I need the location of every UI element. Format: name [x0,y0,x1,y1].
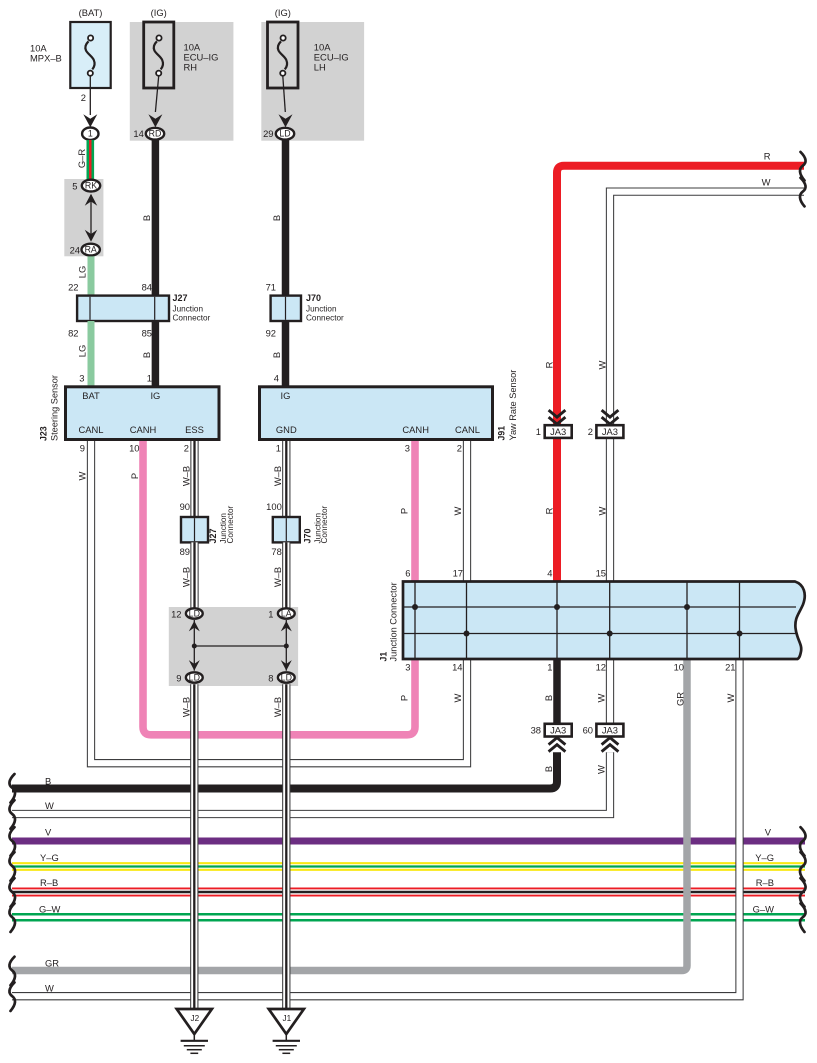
svg-text:12: 12 [596,662,606,673]
link wires between LD/LA ovals [193,620,195,671]
break symbol G-W right [800,903,806,932]
break symbol V right [800,827,806,856]
svg-text:1: 1 [268,609,273,620]
svg-text:B: B [271,215,282,221]
svg-text:14: 14 [133,128,143,139]
svg-text:10: 10 [674,662,684,673]
wire R-B (red-black) horizontal [12,888,805,897]
svg-text:W: W [452,693,463,702]
connector JA3 instance 38 [545,724,572,737]
svg-text:B: B [141,215,152,221]
svg-text:GR: GR [45,958,59,969]
svg-text:(IG): (IG) [275,7,291,18]
svg-text:Y–G: Y–G [40,852,59,863]
svg-text:J70: J70 [302,528,312,543]
svg-text:90: 90 [180,501,190,512]
svg-text:W: W [452,506,463,515]
svg-text:21: 21 [725,662,735,673]
break symbol W right [800,178,806,207]
break symbol W left [9,800,15,829]
svg-text:J1: J1 [379,652,389,662]
svg-text:W: W [45,800,54,811]
svg-text:B: B [543,695,554,701]
svg-text:JA3: JA3 [602,724,618,735]
wire B from RD to J27 pin 84 [152,140,160,296]
wire W from J1 pin 12 to JA3 60 [606,659,614,724]
svg-text:CANH: CANH [130,424,157,435]
svg-text:P: P [399,508,410,514]
steering sensor J23 [66,387,220,440]
svg-text:BAT: BAT [82,390,100,401]
svg-text:R–B: R–B [756,877,774,888]
svg-text:84: 84 [142,282,152,293]
wire W-B from J91 GND pin 1 to J70 pin 100 [282,439,290,518]
svg-text:CANL: CANL [455,424,480,435]
svg-text:J70: J70 [306,293,321,303]
svg-text:12: 12 [171,609,181,620]
svg-text:GND: GND [276,424,297,435]
svg-text:JA3: JA3 [602,426,618,437]
wire fuse F3 to connector LD [283,76,286,112]
break symbol Y-G left [9,852,15,881]
break symbol GR left [9,957,15,986]
svg-text:92: 92 [266,328,276,339]
svg-text:B: B [271,352,282,358]
ground J1 [285,1034,287,1041]
svg-text:Connector: Connector [226,505,235,543]
svg-text:Junction Connector: Junction Connector [389,582,399,661]
svg-text:V: V [765,827,772,838]
svg-text:4: 4 [547,568,552,579]
svg-text:82: 82 [68,328,78,339]
svg-text:W: W [597,506,608,515]
svg-text:J91: J91 [497,426,507,441]
svg-text:W: W [597,360,608,369]
svg-text:15: 15 [596,568,606,579]
svg-text:Junction: Junction [306,304,337,313]
svg-text:W–B: W–B [181,697,192,717]
svg-text:B: B [141,352,152,358]
wire fuse F1 to connector 1 [89,76,91,115]
wire G-W (green-white) horizontal [12,913,805,922]
wire R from JA3 1 to J1 pin 4 [553,438,561,582]
junction connector J1 [403,582,805,660]
wire Y-G (yellow-green) horizontal [12,862,805,871]
wire G-R (green-red) from connector 1 to RK [87,140,95,180]
wire W-B from J23 ESS pin 2 to J27 pin 90 [190,439,198,518]
wire B from JA3 38 down, left to edge [12,752,557,788]
junction connector J70 [271,296,301,321]
yaw rate sensor J91 [260,387,493,440]
wire W from right edge to JA3 2 [610,192,804,426]
bus bars inside J1 [403,606,796,608]
connector shading behind LD/LA junction block [169,607,298,686]
svg-text:W–B: W–B [272,466,283,486]
svg-text:V: V [45,827,52,838]
svg-text:R: R [544,507,555,514]
connector shading behind fuse ECU-IG RH [130,22,234,141]
svg-text:22: 22 [68,282,78,293]
svg-text:J2: J2 [190,1014,199,1023]
svg-text:J27: J27 [208,528,218,543]
connector JA3 instance 60 [596,724,623,737]
svg-text:1: 1 [547,662,552,673]
svg-text:RA: RA [85,245,97,255]
svg-text:Yaw Rate Sensor: Yaw Rate Sensor [508,370,518,441]
svg-text:Connector: Connector [320,505,329,543]
wire W from JA3 60 down, left to edge [12,752,610,814]
svg-text:8: 8 [268,673,273,684]
svg-text:IG: IG [150,390,160,401]
wire GR from J1 pin 10 down and to left edge [12,659,687,971]
svg-text:J23: J23 [39,426,49,441]
wire W-B from J70 pin 78 to LA 1 [282,542,290,607]
svg-text:G–R: G–R [76,149,87,169]
svg-text:W–B: W–B [272,697,283,717]
wire P from J91 CANH pin 3 to J1 pin 6 [411,439,419,582]
svg-text:4: 4 [274,373,279,384]
svg-text:Connector: Connector [306,314,344,323]
wire W loop from J23 CANL pin 9 to J1 pin 14 [91,439,467,764]
wire W-B from LD 8 to ground J1 [282,684,290,1009]
svg-text:RK: RK [85,181,97,191]
svg-text:P: P [399,695,410,701]
svg-text:CANH: CANH [402,424,429,435]
svg-text:W: W [596,693,607,702]
break symbol V left [9,827,15,856]
svg-text:JA3: JA3 [550,724,566,735]
svg-text:J27: J27 [173,293,188,303]
svg-text:9: 9 [176,673,181,684]
svg-text:3: 3 [405,662,410,673]
svg-text:LG: LG [77,345,88,358]
svg-text:J1: J1 [282,1014,291,1023]
svg-text:LG: LG [77,266,88,279]
svg-text:R–B: R–B [40,877,58,888]
svg-text:1: 1 [147,373,152,384]
svg-text:W–B: W–B [181,466,192,486]
svg-text:Y–G: Y–G [755,852,774,863]
svg-text:2: 2 [588,426,593,437]
svg-text:1: 1 [276,443,281,454]
svg-text:6: 6 [405,568,410,579]
wire P loop from J23 CANH pin 10 to J1 pin 3 [143,439,415,735]
svg-text:W: W [725,693,736,702]
break symbol R-B right [800,878,806,907]
svg-text:71: 71 [266,282,276,293]
svg-text:Steering Sensor: Steering Sensor [50,375,60,441]
break symbol R right [800,152,806,181]
svg-text:89: 89 [180,546,190,557]
svg-text:RD: RD [149,129,162,139]
svg-text:29: 29 [263,128,273,139]
svg-text:100: 100 [266,501,282,512]
svg-text:17: 17 [453,568,463,579]
wire W from J1 pin 21 down and to left edge [12,659,740,996]
wire B from J70 pin 92 to J91 IG pin 4 [282,321,290,387]
svg-text:MPX–B: MPX–B [30,53,62,64]
break symbol G-W left [9,903,15,932]
wire V (violet) horizontal [12,838,805,845]
svg-text:GR: GR [675,692,686,706]
svg-text:W: W [762,177,771,188]
wire B from LD to J70 pin 71 [282,140,290,296]
connector JA3 instance 1 [549,410,566,417]
wire R from right edge to JA3 1 [557,166,804,426]
wire W-B from J27 pin 89 to LD 12 [190,542,198,607]
svg-text:5: 5 [72,181,77,192]
junction connector J27 [77,296,169,321]
svg-text:3: 3 [405,443,410,454]
break symbol R-B left [9,878,15,907]
svg-text:2: 2 [184,443,189,454]
wire fuse F2 to connector RD [155,76,158,112]
svg-text:14: 14 [452,662,462,673]
svg-text:P: P [129,473,140,479]
break symbol B left [9,774,15,803]
svg-text:1: 1 [536,426,541,437]
svg-text:LD: LD [189,609,200,619]
svg-text:W–B: W–B [272,567,283,587]
svg-text:9: 9 [80,443,85,454]
svg-text:G–W: G–W [753,903,775,914]
wire W-B from LD 9 to ground J2 [190,684,198,1009]
svg-text:85: 85 [142,328,152,339]
break symbol W bottom left [9,982,15,1011]
wire LG from RA to J27 pin 22 [88,256,95,295]
svg-text:78: 78 [271,546,281,557]
svg-text:B: B [45,776,51,787]
svg-text:2: 2 [457,443,462,454]
wire LG from J27 pin 82 to J23 BAT pin 3 [88,321,95,387]
svg-text:(BAT): (BAT) [79,7,103,18]
svg-text:IG: IG [281,390,291,401]
svg-text:60: 60 [583,724,593,735]
svg-text:W–B: W–B [181,567,192,587]
connector JA3 instance 2 [602,410,619,417]
svg-text:24: 24 [70,245,80,256]
connector pin oval 1 [82,128,98,140]
ground J2 [193,1034,195,1041]
svg-text:W: W [45,983,54,994]
svg-text:Junction: Junction [173,304,204,313]
svg-text:LD: LD [279,129,290,139]
wire link RK to RA with arrows [90,195,92,240]
svg-text:JA3: JA3 [550,426,566,437]
svg-text:(IG): (IG) [151,7,167,18]
svg-text:3: 3 [79,373,84,384]
svg-text:ESS: ESS [185,424,204,435]
svg-text:R: R [544,361,555,368]
svg-text:RH: RH [184,62,198,73]
wire W from JA3 2 to J1 pin 15 [606,438,614,582]
svg-text:R: R [764,151,771,162]
svg-text:2: 2 [81,92,86,103]
wire W from J91 CANL pin 2 to J1 pin 17 [463,439,471,582]
svg-text:LA: LA [281,609,292,619]
svg-text:G–W: G–W [39,903,61,914]
svg-text:1: 1 [88,129,93,139]
wire B from J27 pin 85 to J23 IG pin 1 [152,321,160,387]
svg-text:W: W [596,765,607,774]
svg-text:LD: LD [189,673,200,683]
connector shading behind RK/RA connectors [64,179,103,256]
svg-text:LH: LH [314,62,326,73]
svg-text:LD: LD [281,673,292,683]
svg-text:10: 10 [129,443,139,454]
svg-text:CANL: CANL [78,424,103,435]
svg-text:W: W [77,471,88,480]
wire B from J1 pin 1 to JA3 38 [553,659,561,724]
svg-text:B: B [543,766,554,772]
svg-text:38: 38 [531,724,541,735]
break symbol Y-G right [800,852,806,881]
connector shading behind fuse ECU-IG LH [261,22,364,141]
svg-text:Connector: Connector [173,314,211,323]
